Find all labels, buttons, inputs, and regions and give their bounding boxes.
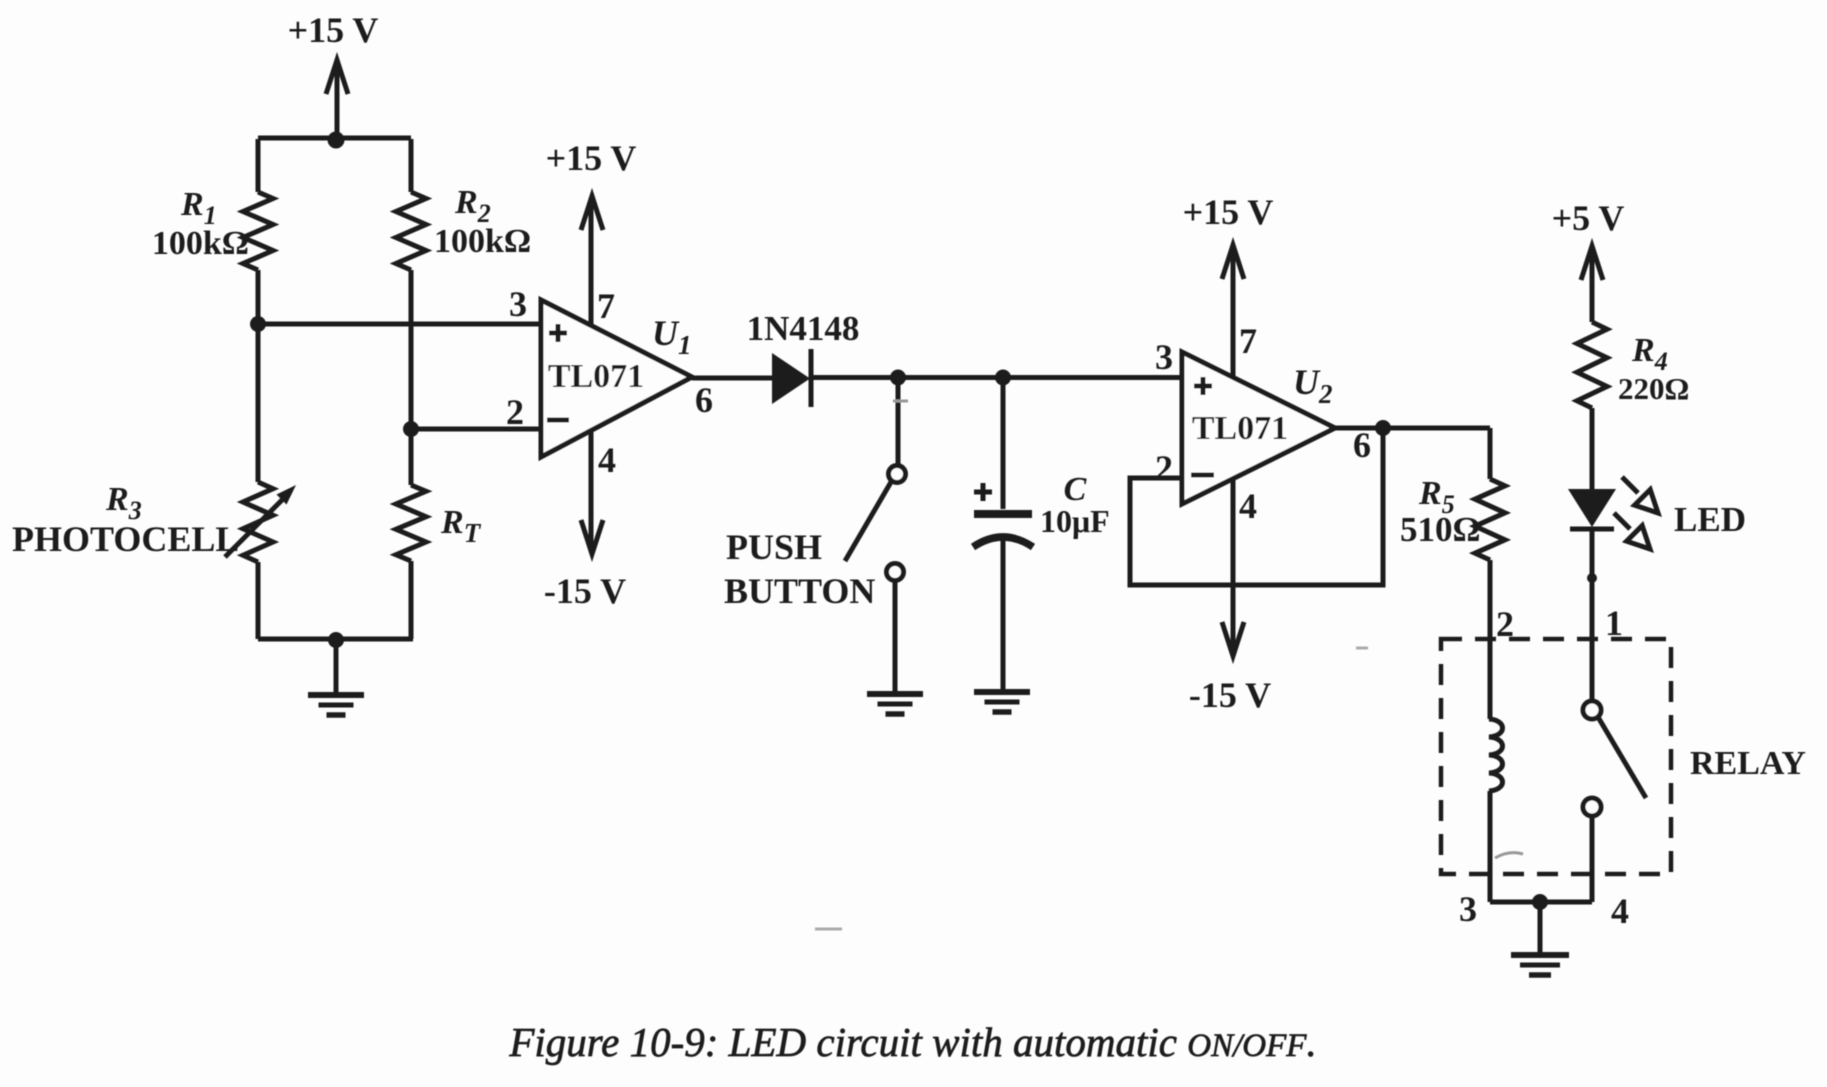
- svg-text:3: 3: [509, 284, 527, 324]
- svg-text:100kΩ: 100kΩ: [434, 223, 531, 260]
- svg-text:510Ω: 510Ω: [1400, 510, 1481, 549]
- svg-text:PUSH: PUSH: [726, 527, 822, 567]
- svg-text:100kΩ: 100kΩ: [152, 225, 249, 262]
- svg-text:7: 7: [1239, 321, 1257, 361]
- svg-text:+5 V: +5 V: [1552, 198, 1625, 238]
- svg-text:6: 6: [695, 380, 713, 420]
- svg-text:4: 4: [1239, 486, 1257, 526]
- svg-text:2: 2: [1155, 448, 1173, 488]
- svg-text:1N4148: 1N4148: [747, 309, 860, 348]
- svg-text:-15 V: -15 V: [1189, 675, 1271, 715]
- svg-text:PHOTOCELL: PHOTOCELL: [12, 519, 239, 559]
- svg-text:+15 V: +15 V: [288, 10, 379, 50]
- svg-text:-15 V: -15 V: [544, 571, 626, 611]
- svg-text:4: 4: [598, 440, 616, 480]
- svg-text:2: 2: [1496, 604, 1514, 644]
- svg-text:3: 3: [1155, 337, 1173, 377]
- svg-text:10μF: 10μF: [1040, 503, 1110, 539]
- svg-text:6: 6: [1353, 425, 1371, 465]
- svg-text:+15 V: +15 V: [546, 138, 637, 178]
- svg-text:RELAY: RELAY: [1690, 745, 1806, 782]
- svg-text:4: 4: [1611, 891, 1629, 931]
- svg-text:1: 1: [1605, 603, 1623, 643]
- svg-text:7: 7: [597, 286, 615, 326]
- svg-text:2: 2: [506, 392, 524, 432]
- svg-text:LED: LED: [1674, 500, 1746, 539]
- svg-text:3: 3: [1459, 889, 1477, 929]
- svg-text:+15 V: +15 V: [1183, 192, 1274, 232]
- svg-text:220Ω: 220Ω: [1618, 371, 1689, 406]
- svg-text:TL071: TL071: [548, 358, 644, 395]
- svg-text:BUTTON: BUTTON: [724, 571, 875, 611]
- svg-text:TL071: TL071: [1192, 410, 1288, 447]
